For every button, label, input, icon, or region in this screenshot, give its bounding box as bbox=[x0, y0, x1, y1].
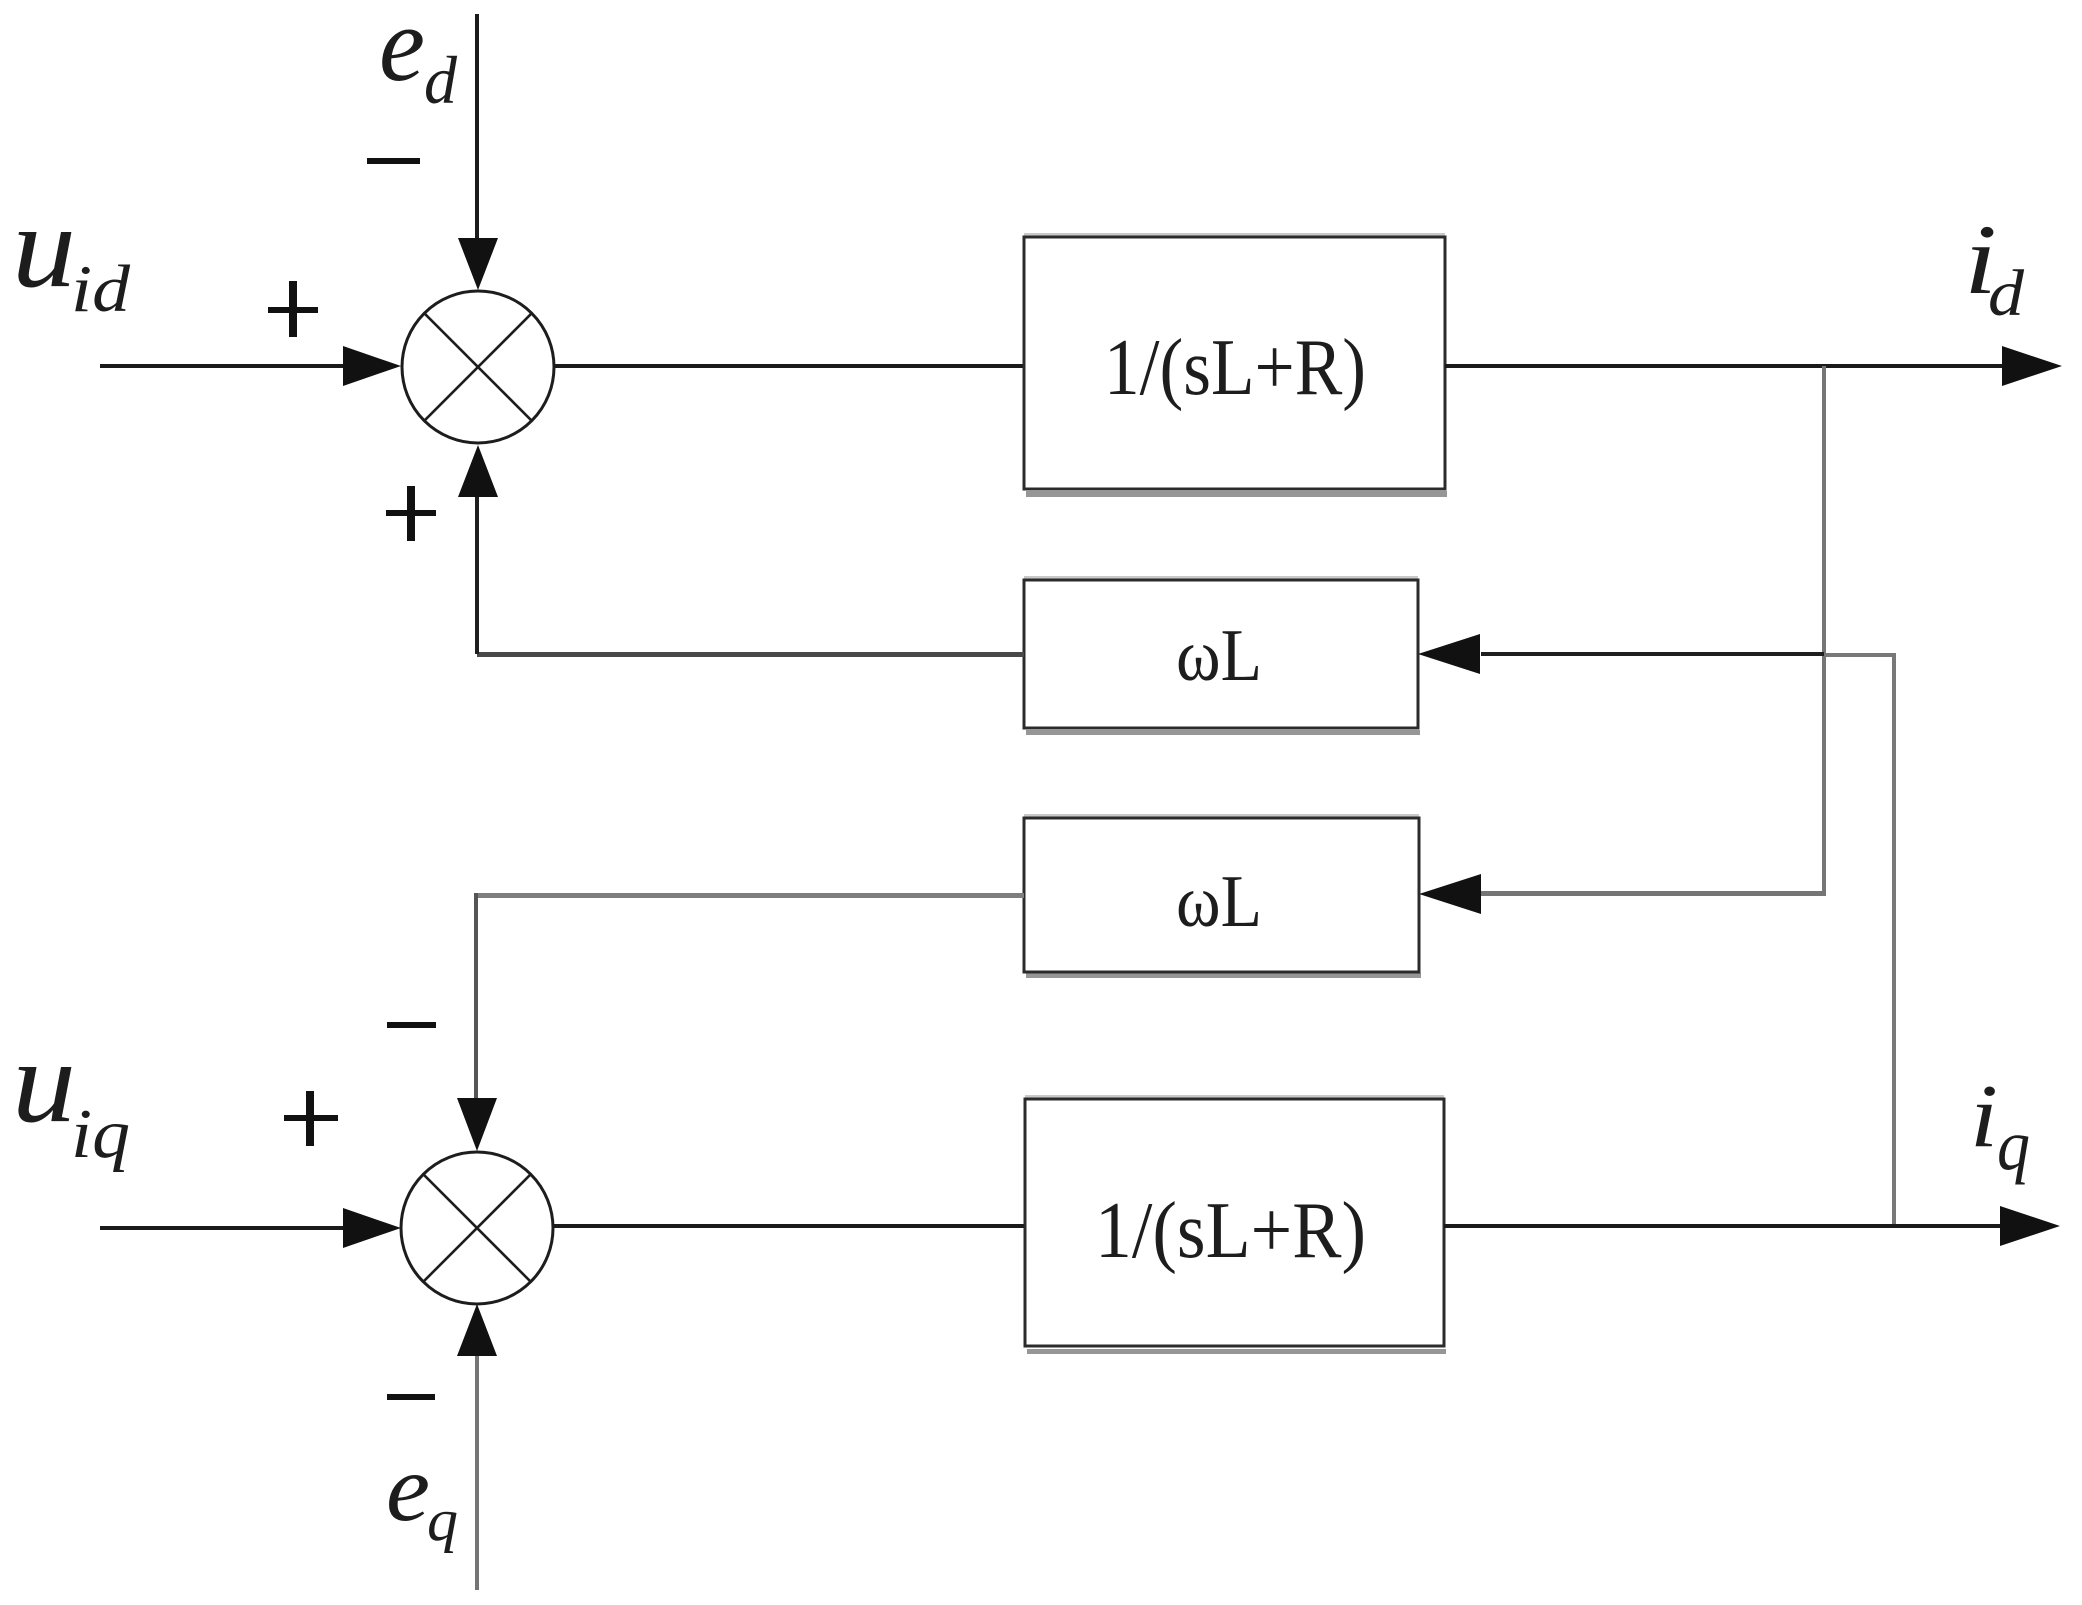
node e_q label bbox=[386, 1435, 458, 1553]
block wL1 (omega L, upper) bbox=[1024, 576, 1420, 735]
wire summer S1 to block 1/(sL+R) d-axis bbox=[554, 364, 1025, 368]
node e_d label bbox=[379, 0, 458, 118]
svg-text:i: i bbox=[1970, 1067, 1998, 1166]
svg-text:1/(sL+R): 1/(sL+R) bbox=[1095, 1187, 1366, 1275]
wire wL1 output going up to summer S1 bbox=[475, 497, 479, 654]
svg-text:u: u bbox=[12, 181, 76, 312]
plus sign at u_iq input of summer S2 bbox=[284, 1091, 338, 1146]
arrowhead into wL1 right bbox=[1418, 634, 1480, 674]
node i_d label bbox=[1964, 204, 2025, 330]
svg-text:u: u bbox=[12, 1016, 76, 1147]
arrowhead into S2 left bbox=[343, 1208, 401, 1248]
svg-text:ωL: ωL bbox=[1176, 861, 1262, 943]
arrowhead into S1 left bbox=[343, 346, 401, 386]
summing junction S2 bbox=[401, 1152, 553, 1304]
wire i_d branch to wL2 block bbox=[1481, 891, 1826, 896]
summing junction S1 bbox=[402, 291, 554, 443]
wire G1 output to i_d bbox=[1445, 364, 2002, 368]
wire u_iq input to summer S2 bbox=[100, 1226, 343, 1230]
wire u_id input to summer S1 bbox=[100, 364, 343, 368]
minus sign at e_d input of summer S1 bbox=[367, 158, 420, 164]
plus sign at feedback input of summer S1 bbox=[386, 486, 436, 541]
arrowhead into S2 top bbox=[457, 1098, 497, 1151]
arrowhead into S1 top bbox=[458, 238, 498, 290]
arrowhead into S2 bottom bbox=[457, 1304, 497, 1356]
svg-text:d: d bbox=[424, 42, 458, 118]
minus sign at wL2 feedback input of summer S2 bbox=[387, 1022, 436, 1028]
svg-text:q: q bbox=[427, 1487, 458, 1553]
block wL2 (omega L, lower) bbox=[1024, 814, 1421, 978]
node i_q label bbox=[1970, 1067, 2030, 1185]
svg-text:e: e bbox=[386, 1435, 430, 1541]
wire wL1 output going left bbox=[477, 652, 1024, 657]
wire wL2 output going left bbox=[476, 893, 1024, 898]
svg-text:id: id bbox=[71, 252, 131, 326]
svg-text:ωL: ωL bbox=[1176, 615, 1262, 697]
node branch of i_q, vertical wire up bbox=[1892, 653, 1896, 1226]
svg-text:1/(sL+R): 1/(sL+R) bbox=[1104, 324, 1366, 412]
node u_id label bbox=[12, 181, 131, 326]
arrowhead into wL2 right bbox=[1419, 874, 1481, 914]
minus sign at e_q input of summer S2 bbox=[387, 1394, 435, 1400]
svg-text:iq: iq bbox=[71, 1096, 130, 1173]
block G2 1/(sL+R) q-axis bbox=[1025, 1095, 1446, 1354]
svg-text:e: e bbox=[379, 0, 425, 104]
wire i_q branch into wL1: horizontal black segment bbox=[1481, 652, 1824, 656]
wire G2 output to i_q bbox=[1444, 1224, 2000, 1228]
plus sign at u_id input of summer S1 bbox=[268, 281, 318, 337]
arrowhead i_q output bbox=[2000, 1206, 2060, 1246]
wire i_q branch into wL1: horizontal gray segment bbox=[1824, 653, 1894, 657]
node branch of i_d, vertical wire down bbox=[1822, 366, 1826, 891]
wire e_d down into summer S1 bbox=[475, 14, 479, 238]
svg-text:d: d bbox=[1988, 257, 2025, 330]
wire summer S2 to block 1/(sL+R) q-axis bbox=[553, 1224, 1025, 1228]
block G1 1/(sL+R) d-axis bbox=[1024, 233, 1447, 497]
wire e_q up into summer S2 bbox=[475, 1356, 479, 1590]
arrowhead into S1 bottom bbox=[458, 445, 498, 497]
svg-text:q: q bbox=[1997, 1105, 2030, 1185]
wire wL2 output going down to summer S2 bbox=[474, 893, 478, 1098]
arrowhead i_d output bbox=[2002, 346, 2062, 386]
node u_iq label bbox=[12, 1016, 130, 1173]
